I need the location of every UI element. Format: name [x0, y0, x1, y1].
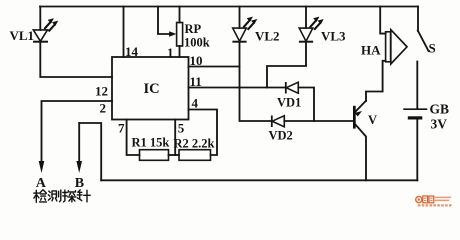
label jiance tanzhen (detection probe) drawn glyphs: [34, 190, 90, 202]
probe B arrowhead: [76, 161, 82, 173]
probe A arrowhead: [39, 161, 45, 173]
svg-text:VL3: VL3: [321, 29, 346, 44]
wire RP bottom lead to pin 1: [179, 46, 181, 57]
LED VL3 emission arrows: [310, 17, 324, 30]
wire top supply rail: [40, 6, 418, 8]
svg-text:12: 12: [95, 84, 108, 99]
LED VL1: [33, 30, 48, 42]
transistor V emitter arrowhead (PNP): [354, 111, 362, 116]
watermark logo circle: [416, 196, 452, 205]
wire RP top lead: [179, 7, 181, 23]
LED VL2 emission arrows: [243, 17, 257, 30]
svg-text:V: V: [368, 113, 377, 127]
wire VL2 anode drop: [239, 7, 241, 29]
wire pin 10 to VL2 cathode: [189, 66, 240, 68]
diode VD1: [286, 82, 299, 94]
battery GB negative plate: [408, 116, 423, 119]
wire pin 7 to R1 left end: [127, 120, 140, 156]
svg-text:VD2: VD2: [269, 129, 293, 143]
watermark small text: [435, 197, 451, 200]
wire pin 11 to VD1 cathode: [189, 87, 286, 89]
potentiometer RP wiper arrowhead: [169, 31, 176, 36]
wire VL3 anode drop: [305, 7, 307, 29]
svg-text:VD1: VD1: [277, 96, 301, 110]
char jian: [34, 190, 47, 202]
LED VL3: [299, 28, 313, 42]
LED VL1 emission arrows: [44, 19, 58, 32]
char zhen: [77, 190, 90, 202]
svg-text:VL1: VL1: [10, 28, 35, 43]
wire switch to battery positive: [416, 62, 418, 109]
wire RP wiper drop: [158, 7, 169, 35]
wire R1 right to R2 left with pin 5 tap: [169, 154, 180, 156]
svg-text:11: 11: [190, 74, 202, 89]
wire HA bottom lead to emitter: [366, 61, 386, 101]
diode VD2: [272, 116, 285, 128]
wire bottom ground rail: [101, 179, 417, 181]
svg-text:1: 1: [167, 45, 174, 60]
switch S blade: [418, 31, 429, 52]
battery GB positive plate: [403, 108, 427, 110]
svg-text:100k: 100k: [184, 36, 210, 50]
LED VL2: [232, 28, 246, 42]
buzzer HA horn: [391, 30, 407, 64]
transistor V collector diagonal and drop to rail: [355, 124, 366, 181]
wire pin 14 drop: [123, 7, 125, 58]
potentiometer RP body: [177, 23, 183, 47]
svg-text:3V: 3V: [431, 117, 448, 132]
svg-text:GB: GB: [430, 102, 450, 117]
resistor R1 body: [140, 150, 169, 161]
wire VD1 anode jog down to base line: [298, 88, 314, 122]
wire VD2 anode to transistor base: [284, 120, 353, 122]
svg-text:5: 5: [178, 121, 185, 136]
wire battery negative to ground rail: [416, 119, 418, 181]
wire probe B drop: [78, 123, 80, 161]
svg-text:RP: RP: [185, 22, 202, 36]
transistor V emitter diagonal: [355, 101, 366, 113]
transistor V base bar: [353, 106, 356, 129]
svg-text:A: A: [36, 176, 47, 191]
wire pin 4 to R2 right end: [189, 110, 218, 156]
wire HA top lead: [380, 7, 385, 34]
svg-text:B: B: [75, 176, 84, 191]
wire VL1 cathode to pin 12: [40, 42, 112, 77]
watermark tiny bottom row: [418, 204, 452, 206]
svg-text:VL2: VL2: [255, 29, 280, 44]
wire VL3 cathode jog to pin 11 line: [267, 42, 306, 88]
svg-text:2: 2: [100, 101, 107, 116]
wire switch top drop: [417, 7, 419, 32]
svg-text:7: 7: [118, 121, 125, 136]
svg-text:IC: IC: [144, 81, 160, 97]
svg-text:R1 15k: R1 15k: [132, 136, 170, 150]
char tan: [63, 190, 76, 202]
IC U1 body: [112, 57, 189, 120]
svg-text:R2 2.2k: R2 2.2k: [174, 137, 215, 151]
wire pin 5 drop: [174, 120, 176, 156]
char ce: [48, 190, 60, 202]
svg-text:4: 4: [192, 96, 199, 111]
svg-text:14: 14: [125, 44, 139, 59]
wire VL2 cathode drop to VD2 line: [240, 42, 272, 121]
wire pin 2 to probe A: [42, 101, 113, 161]
buzzer HA body: [386, 32, 391, 62]
svg-text:HA: HA: [361, 43, 381, 58]
wire probe B branch to ground rail: [79, 123, 101, 180]
wire VL1 anode drop: [39, 7, 41, 30]
resistor R2 body: [179, 150, 211, 161]
watermark bold characters: [423, 196, 428, 203]
svg-text:10: 10: [190, 53, 203, 68]
svg-text:S: S: [429, 41, 436, 56]
